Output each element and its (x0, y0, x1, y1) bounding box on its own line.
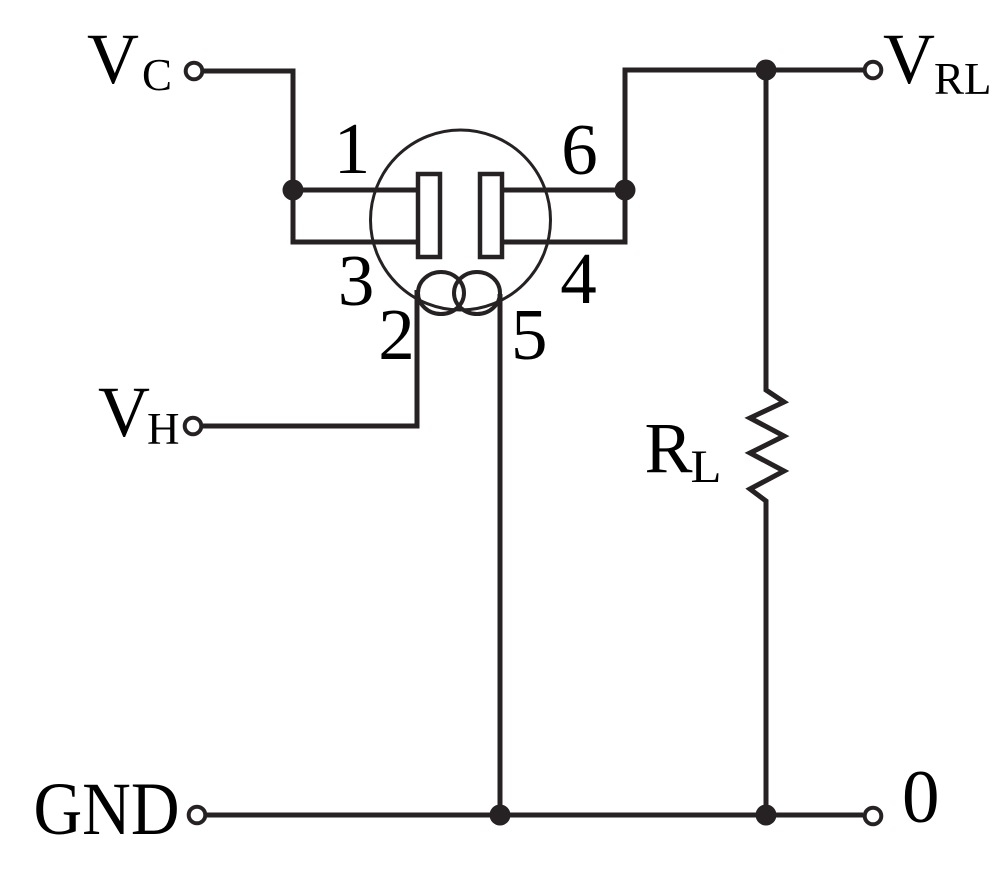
svg-text:4: 4 (560, 238, 597, 319)
svg-text:L: L (691, 441, 722, 493)
svg-text:5: 5 (511, 294, 548, 375)
svg-text:RL: RL (934, 54, 992, 104)
svg-text:6: 6 (561, 109, 598, 190)
svg-text:H: H (147, 404, 180, 454)
svg-text:1: 1 (334, 108, 371, 189)
svg-text:R: R (645, 408, 693, 488)
svg-text:C: C (142, 50, 172, 100)
svg-text:V: V (98, 372, 150, 452)
svg-text:V: V (87, 19, 139, 99)
svg-text:2: 2 (378, 294, 415, 375)
svg-text:GND: GND (34, 768, 180, 851)
svg-text:V: V (883, 19, 935, 99)
svg-text:0: 0 (902, 756, 940, 839)
svg-text:3: 3 (338, 240, 375, 321)
